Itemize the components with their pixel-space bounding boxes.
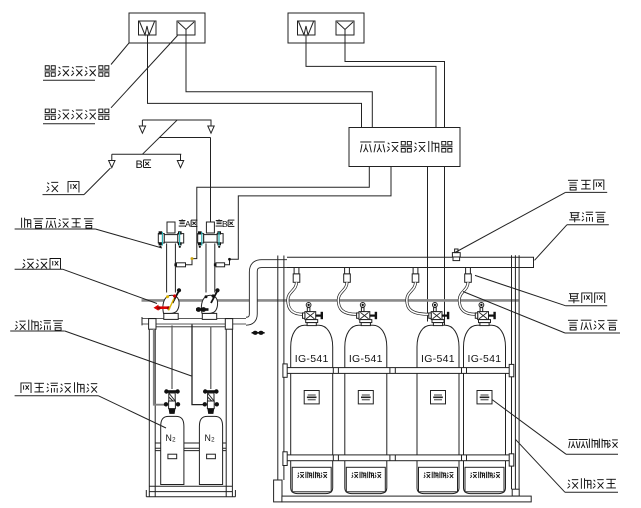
IG cylinder valve 4 xyxy=(479,303,484,308)
control tube gray on left post xyxy=(154,329,166,405)
check valve 2 xyxy=(345,268,350,274)
svg-text:IG-541: IG-541 xyxy=(468,353,502,365)
IG rack bottom bar xyxy=(282,496,531,502)
nozzle A1 xyxy=(141,120,143,126)
control tube riser mid xyxy=(192,325,203,405)
label cylinder rack xyxy=(567,480,578,489)
control tube to N2 valve 2 top xyxy=(210,327,212,389)
cylinder 3 name plate xyxy=(431,391,446,404)
IG cylinder valve 1 xyxy=(306,303,311,308)
cylinder 3 maker label box xyxy=(419,467,458,492)
svg-text:2: 2 xyxy=(172,436,176,443)
N2 rack left post xyxy=(149,319,156,330)
cylinder 2 name plate xyxy=(358,391,373,404)
svg-text:N: N xyxy=(166,433,172,443)
IG rack rail 2 xyxy=(284,455,512,461)
label agent cylinder group xyxy=(569,439,578,448)
drive gas manifold pipe xyxy=(142,318,247,324)
high pressure hose 3 xyxy=(407,282,429,314)
svg-text:IG-541: IG-541 xyxy=(349,353,383,365)
label safety valve xyxy=(568,180,578,190)
check valve 1 xyxy=(294,268,299,274)
fire alarm controller box xyxy=(349,128,460,167)
wire over manifold right xyxy=(444,257,446,269)
svg-text:B: B xyxy=(136,159,143,171)
pipe to B riser vertical xyxy=(210,138,212,223)
label driving gas cylinder group xyxy=(21,383,31,393)
riser pipe zone A xyxy=(167,222,175,233)
control tube to N2 valve 1 top xyxy=(171,325,173,389)
label nozzle xyxy=(47,182,59,192)
label check valve xyxy=(568,294,579,304)
label to zone B xyxy=(216,219,223,226)
IG rack rail 1 xyxy=(284,368,512,374)
wire controller to pressure switch A xyxy=(186,167,369,265)
N2 rack base xyxy=(149,485,232,487)
N2 cylinder valve 1 xyxy=(166,390,178,393)
heat detector symbol W1 xyxy=(139,21,157,35)
collecting manifold xyxy=(287,257,534,267)
IG-541 cylinder 3 xyxy=(417,325,459,493)
N2 cylinder 2 xyxy=(199,416,222,484)
svg-text:IG-541: IG-541 xyxy=(421,353,455,365)
IG cylinder valve 2 xyxy=(360,303,365,308)
N2 cylinder 1 xyxy=(161,416,184,484)
cylinder 1 name plate xyxy=(304,391,319,404)
smoke detector symbol Y1 xyxy=(177,21,195,35)
label collecting manifold xyxy=(569,213,580,223)
pipe union symbol xyxy=(253,331,258,335)
riser pipe zone B xyxy=(206,222,214,233)
label to zone A xyxy=(179,219,186,226)
cylinder 1 maker label box xyxy=(292,467,331,492)
pipe diagonal A-B link xyxy=(143,120,178,154)
nozzle B2 xyxy=(180,154,182,160)
svg-text:B: B xyxy=(222,219,228,229)
selector valve A xyxy=(164,313,178,319)
pipe to B riser horizontal xyxy=(159,137,211,139)
detector group box 2 xyxy=(288,13,364,43)
label high pressure hose xyxy=(568,320,578,330)
label control gas tube xyxy=(15,321,26,330)
wire W1 to controller xyxy=(148,35,362,128)
wire W2 to controller xyxy=(306,35,436,128)
wire Y2 to controller xyxy=(345,35,445,128)
signal feedback device B (flange) xyxy=(198,234,204,243)
high pressure hose 2 xyxy=(338,282,357,314)
pressure switch B xyxy=(216,263,225,267)
label heat detector xyxy=(45,66,57,77)
high pressure hose 1 xyxy=(288,282,303,314)
elbow pipe to collecting manifold xyxy=(246,264,288,322)
N2 rack right post xyxy=(225,319,232,330)
label smoke detector xyxy=(45,109,57,120)
control line along manifold xyxy=(155,326,230,328)
safety valve xyxy=(453,257,460,261)
mounting rail xyxy=(142,299,519,302)
smoke detector symbol Y2 xyxy=(336,21,354,35)
detector group box 1 xyxy=(129,13,205,43)
svg-text:2: 2 xyxy=(211,436,215,443)
IG-541 cylinder 1 xyxy=(291,325,333,493)
N2 cylinder valve 2 xyxy=(205,390,217,393)
svg-text:A: A xyxy=(185,219,191,229)
cylinder 4 name plate xyxy=(477,391,492,404)
check valve 4 xyxy=(466,268,471,274)
high pressure hose 4 xyxy=(459,282,475,314)
IG-541 cylinder 4 xyxy=(464,325,506,493)
IG rack rail 2 end plates xyxy=(283,452,287,466)
IG-541 cylinder 2 xyxy=(345,325,387,493)
nozzle B1 xyxy=(111,154,113,160)
svg-text:IG-541: IG-541 xyxy=(295,353,329,365)
wire controller to cylinder valve 3 left xyxy=(427,167,429,322)
nozzle A2 xyxy=(210,120,212,126)
IG rack left post xyxy=(277,256,279,481)
pressure switch A xyxy=(177,263,186,267)
signal feedback device A (flange) xyxy=(158,234,164,243)
selector valve B xyxy=(202,313,216,319)
wire controller to pressure switch B xyxy=(225,167,391,265)
wire over manifold left xyxy=(427,257,429,269)
label signal feedback device xyxy=(22,218,31,228)
IG rack rail 1 end plates xyxy=(283,364,287,377)
IG cylinder valve 3 xyxy=(433,303,438,308)
wire controller to cylinder valve 3 right xyxy=(444,167,446,326)
svg-text:N: N xyxy=(205,433,211,443)
cylinder 4 maker label box xyxy=(465,467,504,492)
heat detector symbol W2 xyxy=(298,21,316,35)
wire Y1 to controller xyxy=(186,35,372,128)
nozzle branch pipe B xyxy=(112,153,182,155)
label selector valve xyxy=(23,259,34,268)
fire alarm controller label xyxy=(360,142,371,152)
IG rack right post xyxy=(511,255,513,489)
cylinder 2 maker label box xyxy=(346,467,385,492)
N2 rack mid bar xyxy=(155,442,226,444)
drive manifold left cap xyxy=(141,317,143,325)
nozzle branch pipe A xyxy=(142,119,211,121)
check valve 3 xyxy=(413,268,418,274)
